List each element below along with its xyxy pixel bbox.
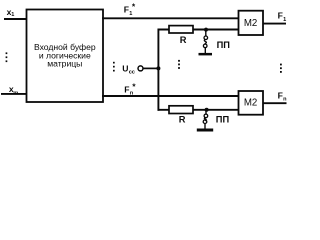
wire xm: [1, 93, 27, 95]
ellipsis F column: [113, 62, 115, 72]
junction bottom: [205, 108, 209, 112]
resistor R (top): [169, 26, 193, 33]
label Fn output: [278, 90, 288, 102]
ground bottom: [197, 129, 213, 132]
junction Ucc rail: [156, 66, 160, 70]
wire Ucc to rail: [143, 67, 158, 69]
label F1 output: [278, 10, 287, 23]
ellipsis middle column: [178, 60, 180, 69]
svg-text:М2: М2: [244, 18, 257, 29]
resistor R (bottom): [169, 106, 193, 114]
ground top: [199, 53, 213, 56]
svg-text:F: F: [278, 90, 283, 100]
ellipsis input column: [6, 52, 8, 62]
label Fn*: [124, 81, 136, 96]
svg-text:1: 1: [11, 12, 14, 18]
wire Fn from buffer to M2: [102, 95, 240, 97]
svg-text:cc: cc: [129, 70, 135, 76]
mux M2 bottom: [239, 91, 264, 115]
input buffer block U1: [27, 10, 104, 103]
junction top: [204, 28, 208, 32]
wire output Fn: [263, 102, 287, 104]
svg-text:ПП: ПП: [217, 40, 231, 50]
svg-text:R: R: [180, 35, 187, 45]
ellipsis output column: [280, 64, 282, 73]
label x1: [7, 7, 15, 18]
wire output F1: [263, 23, 286, 25]
svg-text:1: 1: [283, 17, 286, 23]
wire top pull-up row: [158, 29, 240, 31]
mux M2 top: [239, 11, 264, 35]
svg-text:М2: М2: [244, 98, 257, 109]
svg-text:n: n: [283, 96, 287, 102]
fuse link PP bottom: [203, 110, 208, 129]
label Ucc: [122, 64, 135, 76]
label xm: [9, 84, 18, 96]
svg-text:F: F: [124, 4, 129, 14]
svg-text:1: 1: [129, 11, 132, 17]
fuse link PP top: [203, 30, 207, 53]
label F1*: [124, 1, 136, 17]
Ucc rail wire: [157, 29, 159, 111]
svg-text:матрицы: матрицы: [47, 59, 82, 69]
terminal Ucc: [138, 66, 143, 71]
wire bottom pull-up row: [158, 109, 240, 111]
svg-text:F: F: [124, 84, 129, 94]
wire F1 from buffer to M2: [102, 17, 240, 19]
svg-text:R: R: [179, 115, 186, 125]
svg-text:F: F: [278, 10, 283, 20]
svg-text:ПП: ПП: [216, 114, 230, 124]
wire x1: [4, 18, 27, 20]
svg-text:U: U: [122, 64, 128, 74]
